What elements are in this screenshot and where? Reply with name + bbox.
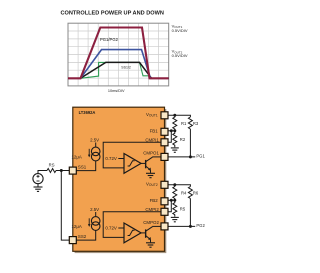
wire FB2 node [168,199,175,201]
transistor Q1 [141,157,152,169]
ground (Q2 emitter) [146,243,155,247]
svg-text:CMPI2: CMPI2 [145,207,159,212]
svg-text:CONTROLLED POWER UP AND DOWN: CONTROLLED POWER UP AND DOWN [60,11,163,17]
wire 2.5V to current source [95,143,97,148]
svg-text:10ms/DIV: 10ms/DIV [108,89,125,93]
emitter stub [150,170,152,173]
node dot PG2 [189,225,192,228]
trace VOUT1 (blue) [68,50,169,79]
svg-text:CMPI1: CMPI1 [145,138,159,143]
IC body LT3692A [73,107,165,251]
wire collector to CMPO1 [152,156,161,158]
ground (source) [37,184,39,187]
hysteresis symbol (ch1) [128,161,135,166]
scope grid [68,23,169,86]
pin CMPO2 [161,223,168,230]
svg-text:R2: R2 [180,137,186,142]
node dot CMPI1 junction [170,129,173,132]
wire SS junction down to SS2 [61,171,69,241]
node dot SS junction [60,169,63,172]
svg-text:0.5V/DIV: 0.5V/DIV [172,28,188,33]
wire current source to SS1 [76,161,95,171]
wire 0.72V to comparator (ch2) [118,227,124,229]
node dot FB1 [173,129,176,132]
svg-text:0.5V/DIV: 0.5V/DIV [172,53,188,58]
svg-text:R6: R6 [193,190,199,195]
svg-text:PG1: PG1 [196,154,205,159]
node dot CMPI2 junction [170,199,173,202]
resistor R1 [173,115,177,131]
current direction arrow (ch1) [88,149,90,155]
wire VOUT2 node [168,185,190,187]
ground (Q1 emitter) [146,173,155,177]
svg-text:R4: R4 [181,190,187,195]
svg-text:0.72V: 0.72V [105,156,117,161]
svg-text:PG1/PG2: PG1/PG2 [100,37,119,42]
IC shadow [75,109,167,253]
wire current source to SS2 [76,230,95,240]
wire CMPI2 to FB2 node [168,200,171,212]
trace PG1/PG2 (maroon) [68,28,169,79]
wire CMPI2 to comparator input [103,212,161,238]
wire CMPO2 to PG2 [168,225,195,227]
svg-text:12μA: 12μA [71,155,81,160]
node dot FB2 [173,199,176,202]
wire R3 to PG1 node [189,129,191,157]
current direction arrow (ch2) [88,218,90,224]
svg-text:LT3692A: LT3692A [79,110,96,115]
wire CMPI1 to comparator input [103,142,161,168]
svg-text:RS: RS [49,163,55,168]
svg-text:PG2: PG2 [196,223,205,228]
pin VOUT1 [161,112,168,119]
resistor R2 [173,131,177,147]
comparator CMP2 [124,223,141,243]
pin CMPO1 [161,153,168,160]
svg-text:2.5V: 2.5V [90,138,99,143]
svg-text:0.72V: 0.72V [105,226,117,231]
svg-text:R1: R1 [181,121,187,126]
pin FB2 [161,198,168,205]
resistor RS [47,169,56,173]
hysteresis symbol (ch2) [128,230,135,235]
ground (R5) [171,217,179,221]
svg-text:CMPO2: CMPO2 [143,220,159,225]
wire FB1 node [168,130,175,132]
resistor R6 [188,187,192,199]
wire CMPO1 to PG1 [168,156,195,158]
pin CMPI2 [161,208,168,215]
ground (R2) [171,148,179,152]
svg-text:VOUT1: VOUT1 [146,112,158,118]
current source I1 12uA [91,147,100,161]
pin FB1 [161,128,168,135]
resistor R4 [173,185,177,200]
pin CMPI1 [161,139,168,146]
svg-text:2.5V: 2.5V [90,207,99,212]
wire 2.5V to current source (ch2) [95,212,97,217]
svg-text:SS1/2: SS1/2 [121,65,131,69]
wire collector to CMPO2 [152,225,161,227]
transistor Q2 [141,227,152,239]
current source I2 12uA [91,217,100,231]
svg-text:VOUT2: VOUT2 [146,181,158,187]
wire 0.72V to comparator [118,158,124,160]
svg-text:CMPO1: CMPO1 [143,151,159,156]
resistor R3 [188,117,192,129]
svg-text:FB1: FB1 [150,128,159,133]
comparator CMP1 [124,154,141,174]
pin VOUT2 [161,181,168,188]
pin SS2 [69,237,76,244]
svg-text:FB2: FB2 [150,198,159,203]
svg-text:R3: R3 [193,121,199,126]
svg-text:12μA: 12μA [71,224,81,229]
node dot VOUT1/R1 [173,114,176,117]
resistor R5 [173,200,177,216]
svg-text:R5: R5 [180,207,186,212]
node dot VOUT2/R4 [173,183,176,186]
node dot PG1 [189,155,192,158]
wire VOUT1 node [168,115,190,117]
svg-text:SS2: SS2 [78,234,87,239]
trace VOUT2 (green) [68,62,169,78]
pin SS1 [69,167,76,174]
wire R6 to PG2 node [189,199,191,227]
wire RS to SS1 [56,170,69,172]
svg-text:SS1: SS1 [78,164,87,169]
voltage source V1 [33,174,43,184]
emitter stub (ch2) [150,240,152,243]
wire source to RS [38,171,47,174]
wire CMPI1 to FB1 node [168,131,171,143]
trace SS1/2 (black) [68,62,169,78]
